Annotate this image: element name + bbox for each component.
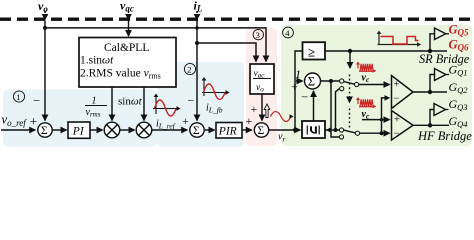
svg-text:vac: vac	[120, 0, 134, 14]
svg-text:2: 2	[187, 65, 191, 75]
dotted gang link upper	[349, 75, 351, 103]
svg-text:+: +	[246, 114, 253, 128]
arrow v_o into dashed line	[44, 11, 46, 14]
svg-text:SR Bridge: SR Bridge	[419, 52, 470, 66]
wire: i_L vertical down to summer S2	[196, 20, 198, 120]
buffer gate G_Q1	[435, 69, 446, 81]
svg-text:PIR: PIR	[218, 126, 237, 138]
region 4 (modulator, green)	[281, 25, 472, 146]
summer S4 (1 - |u|)	[305, 73, 321, 89]
wire: tap line to feedforward box	[197, 43, 256, 62]
svg-text:3: 3	[256, 30, 260, 40]
hollow up arrow	[264, 104, 270, 118]
Cal&PLL box	[79, 38, 176, 88]
node: i_L tap junction	[195, 26, 199, 30]
region 3 (feedforward, pink)	[246, 28, 277, 146]
arrow i_L into dashed line	[196, 11, 198, 13]
svg-text:Σ: Σ	[308, 75, 315, 89]
circled 4	[283, 27, 294, 38]
wire up to buffer G_Q1	[430, 75, 434, 93]
svg-text:Σ: Σ	[193, 125, 200, 137]
node: SR output junction	[428, 49, 432, 53]
switch SW2 blade	[344, 130, 356, 133]
buffer gate G_Q3	[434, 104, 446, 116]
svg-text:−: −	[33, 94, 40, 108]
svg-text:+: +	[251, 102, 258, 116]
svg-text:vo: vo	[256, 83, 264, 94]
feedforward box v_ac/v_o	[250, 64, 274, 94]
wire: v_o_ref into S1	[1, 129, 35, 131]
wire: |u| output up into S4	[313, 91, 315, 121]
summer S2	[190, 123, 204, 137]
wire: carrier to CMP2 plus input	[362, 119, 390, 121]
wire: S2 to PIR	[205, 129, 215, 131]
wire: v_ac vertical into Cal&PLL box	[128, 20, 130, 36]
svg-text:Cal&PLL: Cal&PLL	[104, 42, 149, 54]
svg-text:vac: vac	[254, 69, 266, 80]
svg-text:sinωt: sinωt	[118, 96, 143, 108]
wire: |u| up to upper switch contact	[336, 89, 340, 130]
dotted gang link lower	[349, 109, 351, 130]
sine icon C (v_r waveform)	[271, 112, 292, 122]
region 2 (current loop, blue)	[157, 62, 244, 147]
node: CMP1 output junction	[428, 90, 432, 94]
comparator CMP1	[392, 76, 414, 109]
wire: S3 output v_r to |u|	[269, 129, 301, 131]
svg-text:−: −	[301, 90, 308, 104]
svg-text:PI: PI	[72, 126, 85, 138]
switch SW2 contacts	[339, 128, 343, 132]
buffer gate G_Q5	[435, 28, 446, 40]
comparator CMP2	[392, 111, 414, 141]
wire: PI to multiplier M1	[90, 129, 103, 131]
wire: v_o horizontal to feedforward box	[45, 28, 266, 62]
arrow v_ac into dashed line	[128, 11, 130, 13]
svg-text:+: +	[394, 115, 400, 126]
carrier icon 2	[356, 97, 377, 108]
svg-text:iL: iL	[194, 0, 203, 14]
node: CMP2 output junction	[428, 123, 432, 127]
node: |u| output junction	[334, 128, 338, 132]
wire: M2 to S2	[152, 129, 187, 131]
svg-text:−: −	[394, 129, 400, 140]
node: S4 output junction	[329, 79, 333, 83]
top dashed boundary line	[0, 18, 474, 21]
svg-text:2.RMS value vrms: 2.RMS value vrms	[80, 68, 161, 81]
wire: feedforward output down into S3	[261, 94, 263, 121]
GE box	[303, 42, 326, 59]
SR square wave icon	[377, 31, 422, 47]
node: crossing dot carrier/v_r	[380, 118, 383, 121]
svg-text:1: 1	[92, 96, 97, 107]
wire: Cal&PLL output sinwt down to M2	[143, 87, 145, 121]
svg-text:GQ5: GQ5	[449, 23, 470, 38]
wire: S4 output to switch contact	[321, 80, 340, 82]
switch SW1 blade	[344, 82, 355, 85]
|u| box	[302, 121, 325, 138]
sine icon B (i_L feedback)	[202, 77, 230, 100]
svg-text:vc: vc	[362, 73, 370, 85]
wire: CMP1 output	[413, 91, 447, 93]
svg-text:≥: ≥	[308, 45, 315, 60]
wire: S1 to PI	[52, 129, 66, 131]
wire: SW2 blade to CMP2 minus input	[360, 132, 390, 134]
svg-text:+: +	[30, 114, 38, 129]
circled 3	[253, 29, 263, 39]
switch SW1 contacts	[340, 79, 344, 83]
svg-text:Σ: Σ	[258, 125, 265, 137]
wire: Cal&PLL output 1/v_rms down to M1	[111, 87, 113, 121]
svg-text:1: 1	[16, 92, 20, 102]
svg-text:vc: vc	[362, 109, 370, 121]
svg-text:+: +	[182, 114, 189, 128]
wire: GE output to SR buffers	[325, 50, 447, 52]
circled 1	[13, 91, 24, 102]
svg-text:4: 4	[285, 28, 290, 38]
svg-text:1.sinωt: 1.sinωt	[80, 55, 114, 67]
wire: v_r up to comparator GE	[295, 51, 303, 130]
node: v_o junction	[43, 26, 47, 30]
wire: SW1 to comparator CMP1 plus input	[359, 84, 390, 86]
mode arrow down onto switch	[349, 51, 351, 68]
region 1 (voltage loop, blue)	[3, 90, 157, 147]
node: v_r junction	[293, 128, 297, 132]
carrier icon 1	[356, 62, 377, 73]
svg-text:−: −	[188, 94, 195, 108]
wire: v_o vertical down to summer S1	[44, 20, 46, 120]
summer S3	[254, 123, 268, 137]
wire up to G_Q5 buffer	[430, 34, 434, 51]
wire: PIR to S3	[242, 129, 252, 131]
wire up to buffer G_Q3	[430, 110, 434, 126]
node: junction to mode switch	[348, 49, 352, 53]
circled 2	[184, 63, 195, 74]
wire: |u| right output to switch contact	[325, 129, 339, 131]
multiplier M2	[136, 122, 152, 138]
wire: S4 down to lower switch contact	[331, 81, 339, 137]
multiplier M1	[104, 122, 120, 138]
wire: CMP2 output	[413, 124, 449, 126]
wire: constant into S4	[296, 80, 303, 82]
summer S1	[38, 123, 52, 137]
svg-text:+: +	[394, 80, 400, 91]
wire: v_r feedback vertical to CMP inputs	[382, 98, 388, 133]
svg-text:HF Bridge: HF Bridge	[417, 129, 472, 143]
sine icon A (reference sine)	[153, 94, 181, 117]
arrowhead into |u| right edge	[326, 127, 331, 132]
node: junction on SW2 output	[380, 131, 384, 135]
svg-text:Σ: Σ	[41, 125, 48, 137]
PI box	[68, 122, 90, 138]
PIR box	[216, 123, 242, 139]
wire: M1 to M2	[120, 129, 135, 131]
svg-text:−: −	[393, 94, 399, 105]
svg-text:vo: vo	[38, 0, 48, 14]
